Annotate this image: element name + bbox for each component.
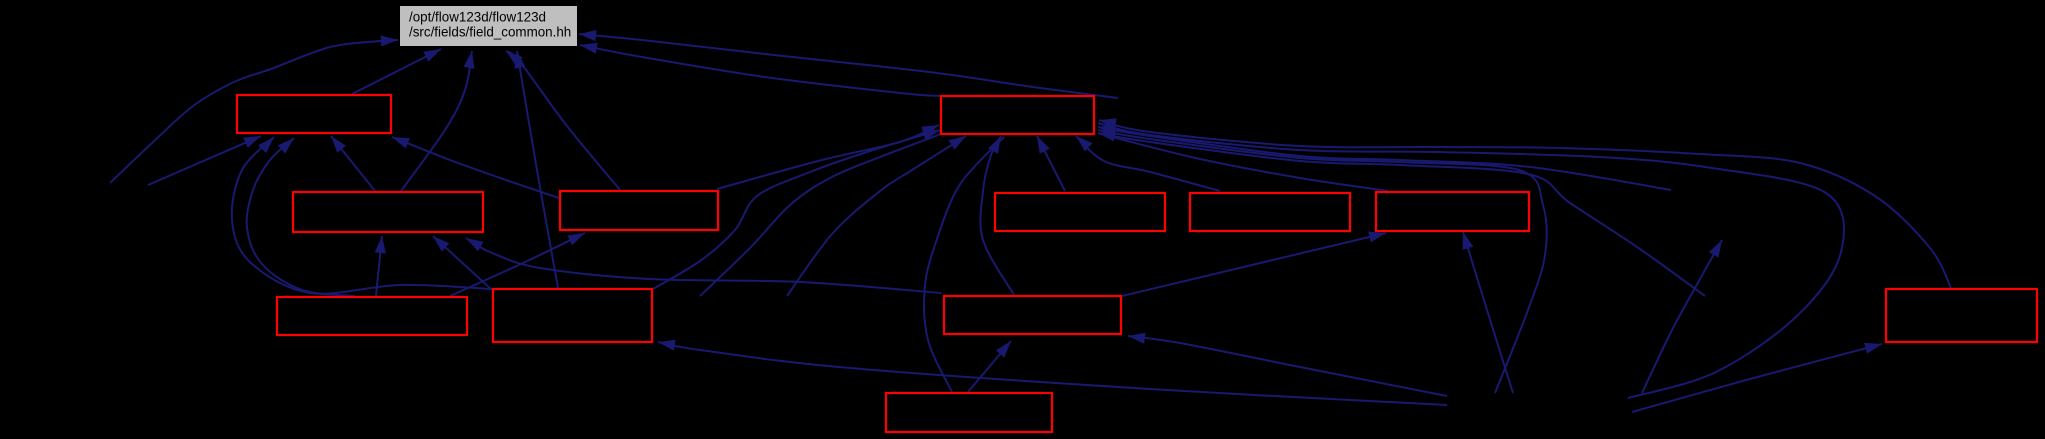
- svg-text:/src/fields/field_common.hh: /src/fields/field_common.hh: [409, 25, 571, 40]
- svg-text:/opt/flow123d/flow123d: /opt/flow123d/flow123d: [409, 10, 546, 25]
